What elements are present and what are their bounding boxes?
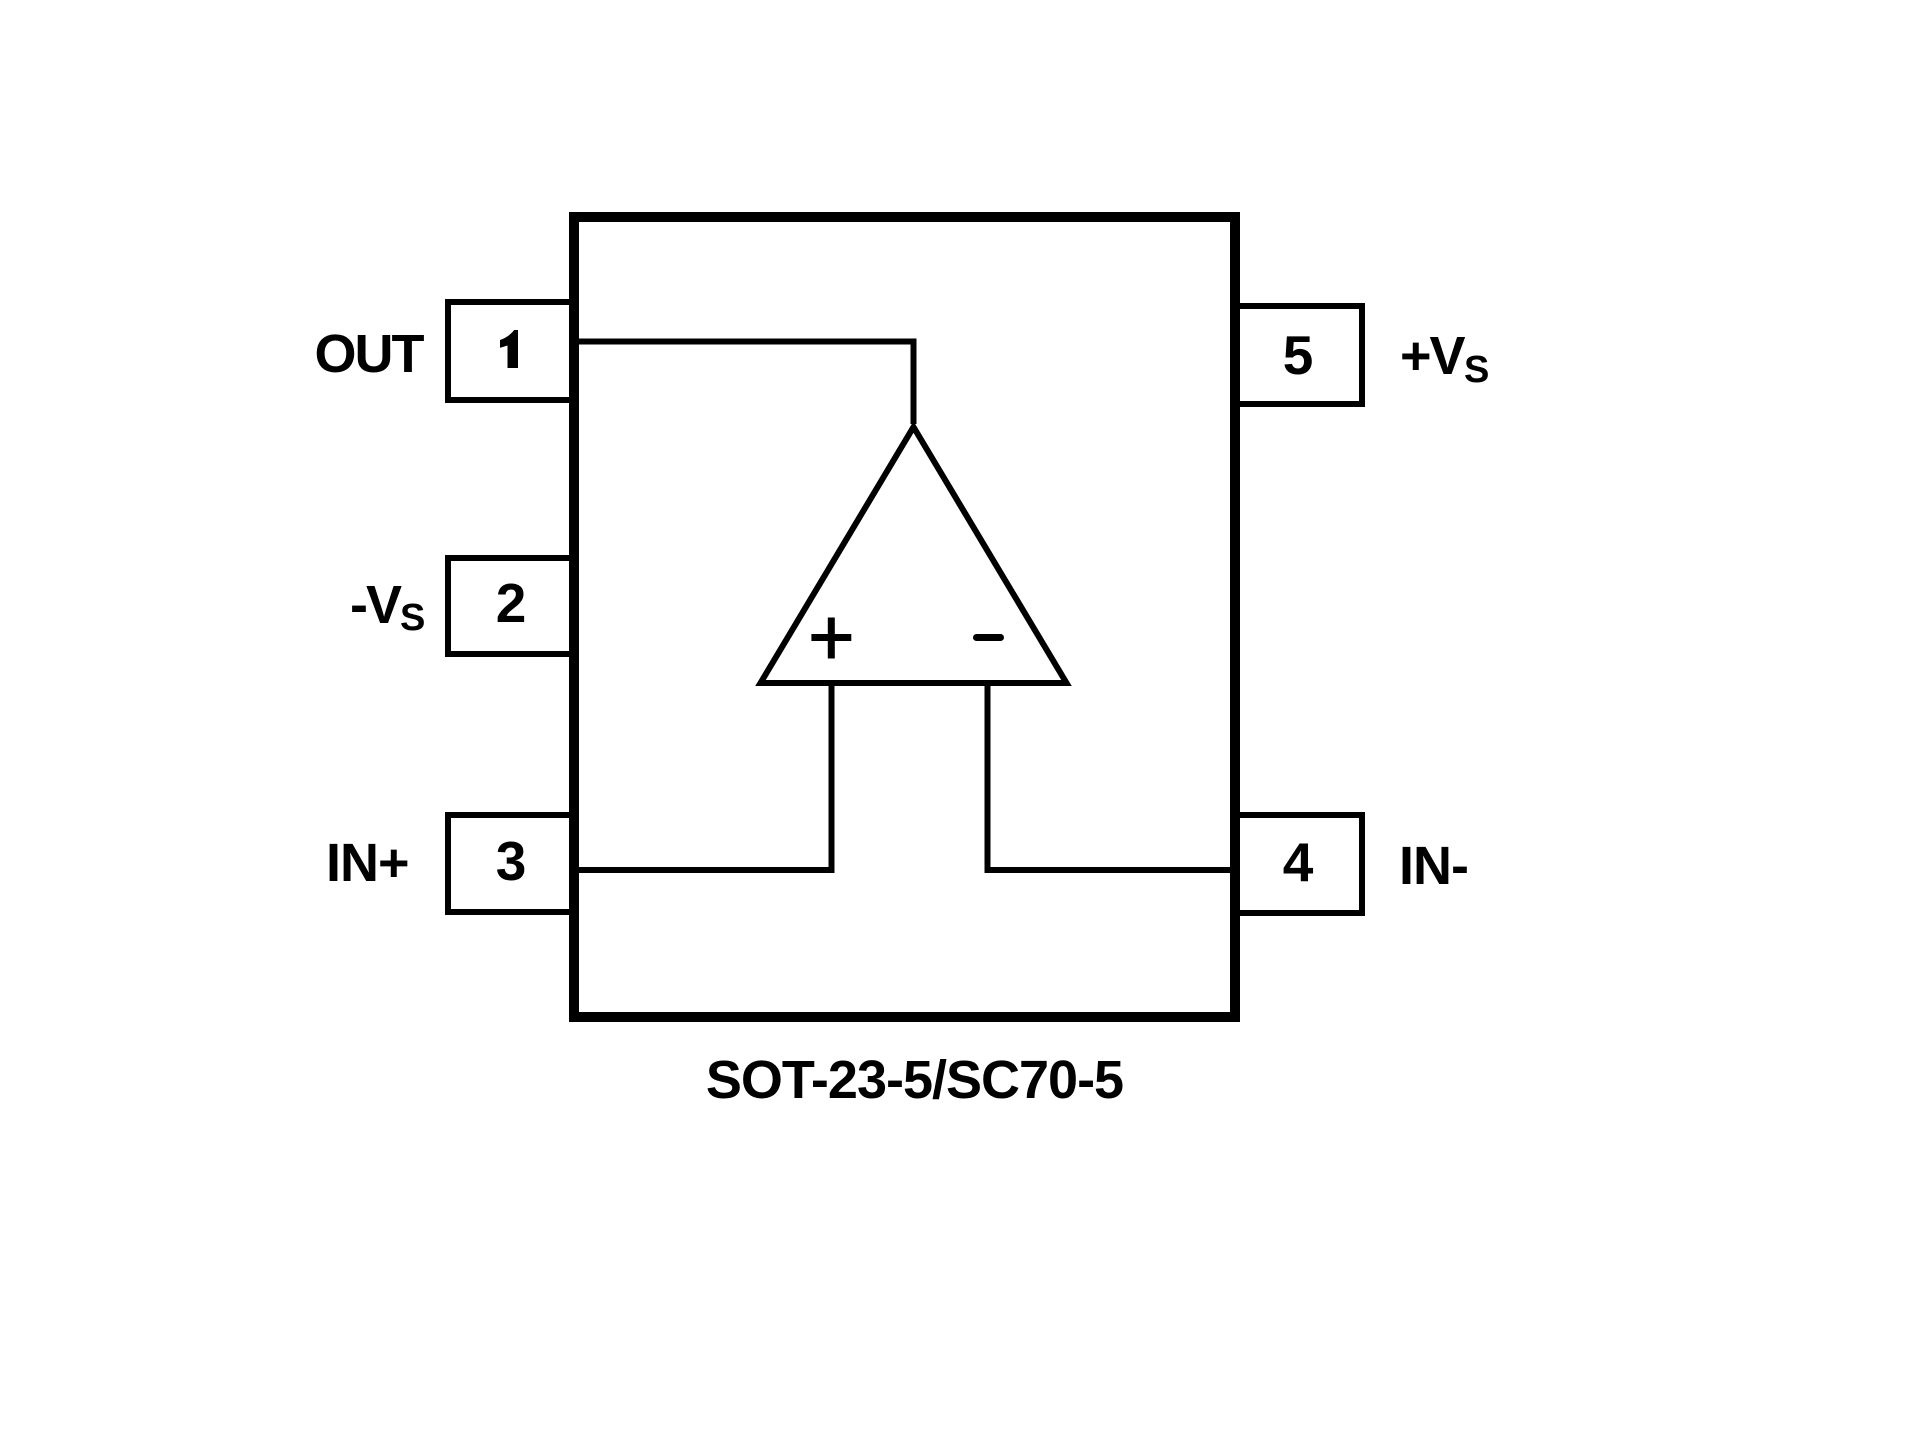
svg-text:+V: +V	[1400, 326, 1466, 386]
pin 5 box	[1235, 306, 1362, 404]
svg-text:IN-: IN-	[1399, 836, 1468, 896]
svg-text:S: S	[400, 597, 424, 639]
IC package body U1 (SOT-23-5/SC70-5 outline)	[574, 217, 1235, 1017]
op-amp + input sign	[811, 618, 851, 659]
op-amp U1 triangle	[761, 427, 1067, 683]
svg-text:3: 3	[496, 830, 527, 892]
wire: pin4 IN- to op-amp − input	[988, 683, 1236, 870]
svg-text:IN+: IN+	[326, 833, 409, 893]
svg-text:5: 5	[1283, 324, 1314, 386]
svg-text:OUT: OUT	[315, 324, 425, 384]
pin 1 box	[448, 302, 575, 400]
pin 4 box	[1235, 815, 1362, 913]
pin 3 box	[448, 815, 575, 912]
svg-text:2: 2	[496, 572, 527, 634]
pin 1 number	[500, 330, 518, 368]
svg-text:S: S	[1464, 349, 1488, 391]
op-amp − input sign	[977, 634, 1001, 641]
wire: pin3 IN+ to op-amp + input	[574, 683, 832, 870]
pin 2 box	[448, 558, 575, 654]
svg-text:-V: -V	[350, 575, 402, 635]
wire: pin1 OUT to op-amp output apex	[574, 342, 914, 425]
svg-text:SOT-23-5/SC70-5: SOT-23-5/SC70-5	[706, 1050, 1123, 1110]
svg-text:4: 4	[1283, 831, 1314, 893]
